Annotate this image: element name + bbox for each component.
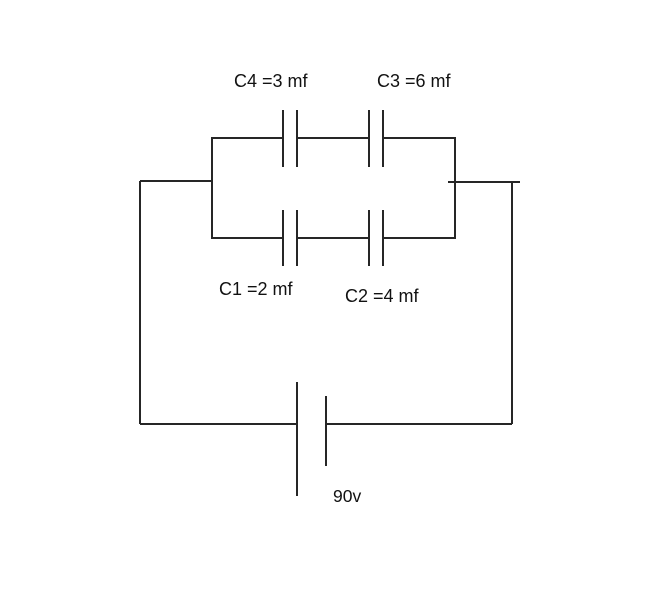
wire inner-box left vertical bbox=[211, 137, 213, 239]
wire outer right vertical bbox=[511, 182, 513, 424]
wire bottom-left lead to C1 bbox=[212, 237, 283, 239]
capacitor C1 bbox=[283, 210, 297, 266]
label C2 value bbox=[345, 287, 419, 305]
wire top-left lead to C4 bbox=[212, 137, 283, 139]
wire between C4 and C3 bbox=[297, 137, 369, 139]
wire bottom right from battery bbox=[326, 423, 512, 425]
capacitor C3 bbox=[369, 110, 383, 167]
wire outer left vertical bbox=[139, 181, 141, 424]
wire inner-box right vertical bbox=[454, 137, 456, 239]
capacitor C2 bbox=[369, 210, 383, 266]
label C1 value bbox=[219, 280, 293, 298]
wire left connector (node A) bbox=[140, 180, 213, 182]
battery B1 90v bbox=[297, 382, 326, 496]
wire between C1 and C2 bbox=[297, 237, 369, 239]
label C3 value bbox=[377, 72, 451, 90]
wire right connector (node B) bbox=[448, 181, 520, 183]
wire top-right lead from C3 bbox=[383, 137, 455, 139]
label battery voltage 90v bbox=[333, 488, 361, 506]
wire bottom-right lead from C2 bbox=[383, 237, 455, 239]
capacitor C4 bbox=[283, 110, 297, 167]
label C4 value bbox=[234, 72, 308, 90]
wire bottom left to battery bbox=[140, 423, 297, 425]
